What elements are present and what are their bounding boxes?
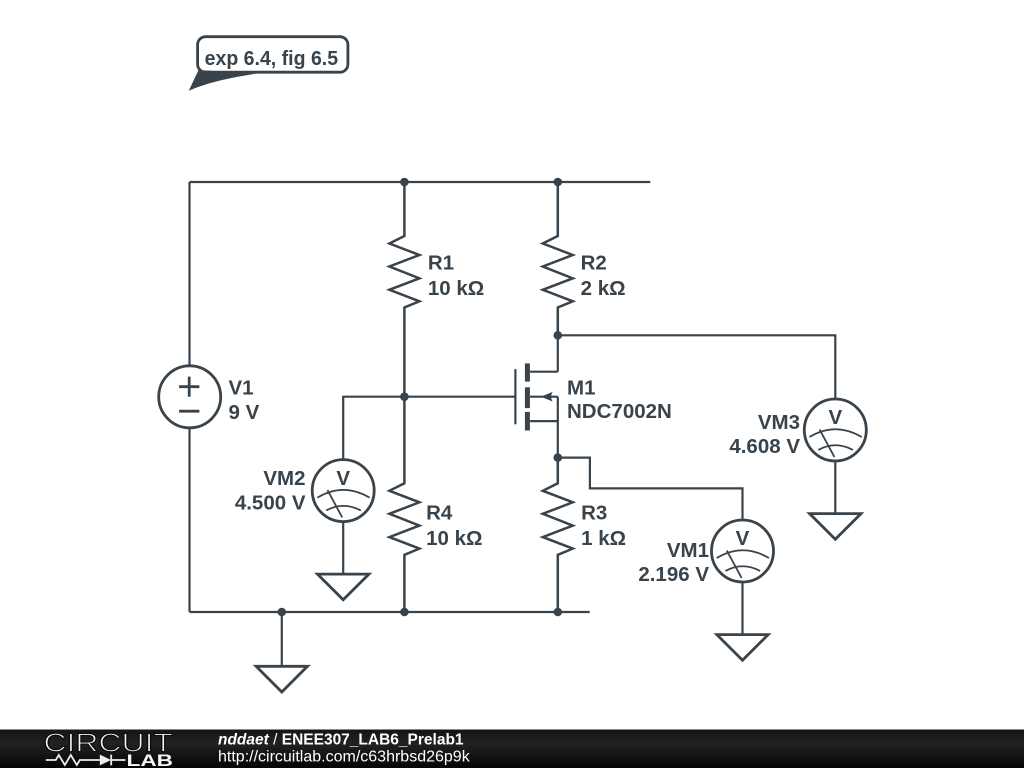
wire gate net (from VM2 column to gate) [343,397,515,460]
svg-text:R4: R4 [426,502,453,525]
svg-text:LAB: LAB [127,751,174,768]
wire top rail [190,181,651,183]
svg-text:10 kΩ: 10 kΩ [426,527,482,550]
svg-text:4.500 V: 4.500 V [235,492,306,515]
ground on bottom rail [256,612,307,692]
resistor R4 [389,397,482,612]
annotation bubble "exp 6.4, fig 6.5" [189,37,348,91]
svg-text:10 kΩ: 10 kΩ [428,277,484,300]
footer bar [0,730,1024,768]
svg-text:VM2: VM2 [263,467,305,490]
resistor R1 [389,182,484,397]
resistor R3 [543,458,626,612]
node bottom rail / ground [278,608,287,617]
wire drain node to VM3 [558,335,836,399]
svg-text:R3: R3 [581,502,607,525]
svg-text:http://circuitlab.com/c63hrbsd: http://circuitlab.com/c63hrbsd26p9k [218,748,471,765]
transistor M1 NDC7002N [515,363,671,457]
node source [554,453,563,462]
CircuitLab logo wordmark [44,728,174,768]
wire bottom rail [190,611,590,613]
svg-text:nddaet / ENEE307_LAB6_Prelab1: nddaet / ENEE307_LAB6_Prelab1 [218,731,464,748]
svg-text:V: V [736,527,750,550]
svg-text:R2: R2 [581,252,607,275]
resistor R2 [543,182,626,335]
svg-text:R1: R1 [428,252,454,275]
svg-text:2.196 V: 2.196 V [638,563,709,586]
node gate [400,392,409,401]
svg-text:V: V [828,406,842,429]
svg-text:M1: M1 [567,376,595,399]
node bottom rail / R3 [554,608,563,617]
voltmeter VM3 [729,399,866,461]
logo resistor-diode glyph [46,755,126,766]
svg-text:NDC7002N: NDC7002N [567,400,672,423]
svg-text:4.608 V: 4.608 V [729,435,800,458]
node bottom rail / R4 [400,608,409,617]
svg-text:exp 6.4, fig 6.5: exp 6.4, fig 6.5 [205,47,339,70]
svg-text:V1: V1 [229,377,254,400]
node drain [554,331,563,340]
node top rail / R2 [554,178,563,187]
svg-text:2 kΩ: 2 kΩ [581,277,626,300]
node top rail / R1 [400,178,409,187]
voltage source V1 [159,366,260,428]
svg-text:VM3: VM3 [758,411,800,434]
wire source step to VM1 [558,458,743,521]
wire left rail (V1 branch) [188,182,190,612]
ground below VM3 [810,461,861,539]
voltmeter VM1 [638,520,773,586]
voltmeter VM2 [235,460,374,522]
svg-text:9 V: 9 V [229,401,260,424]
svg-text:VM1: VM1 [667,539,709,562]
ground below VM1 [717,582,768,660]
ground below VM2 [318,522,369,600]
svg-text:1 kΩ: 1 kΩ [581,527,626,550]
svg-text:V: V [336,467,350,490]
wire drain lead [557,335,559,371]
